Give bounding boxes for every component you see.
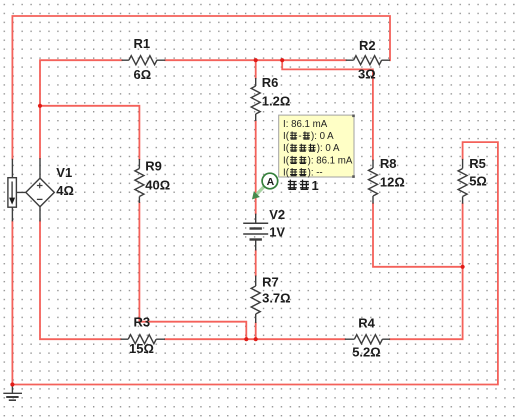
wire: R6 bottom to V2 top: [255, 121, 257, 214]
svg-text:R8: R8: [380, 156, 397, 171]
svg-text:): 0 A: ): 0 A: [317, 143, 340, 154]
svg-text:A: A: [267, 176, 275, 188]
junction node: R7 to rail: [254, 337, 258, 341]
junction node: R9 branch: [38, 104, 42, 108]
svg-text:I(: I(: [283, 143, 290, 154]
svg-text:V1: V1: [56, 165, 72, 180]
svg-text:5Ω: 5Ω: [469, 174, 487, 189]
CCVS V1: current-sense element: [8, 159, 17, 222]
svg-text:4Ω: 4Ω: [56, 183, 74, 198]
resistor R5: [458, 159, 467, 204]
svg-text:6Ω: 6Ω: [134, 67, 152, 82]
CCVS V1: dependent source diamond: [16, 158, 54, 221]
svg-text:5.2Ω: 5.2Ω: [352, 345, 381, 360]
junction node: R6 top: [254, 58, 258, 62]
current probe 探针1: [252, 173, 278, 199]
svg-text:3.7Ω: 3.7Ω: [262, 291, 291, 306]
wire: R1 right to R2 left: [165, 59, 345, 61]
svg-text:R9: R9: [145, 159, 162, 174]
resistor R6: [251, 78, 260, 121]
battery V2: [243, 214, 268, 251]
wire: node down to R4 right: [390, 267, 463, 339]
resistor R1: [122, 56, 166, 65]
svg-text:V2: V2: [269, 207, 285, 222]
svg-text:): 86.1 mA: ): 86.1 mA: [308, 155, 353, 166]
svg-text:R5: R5: [469, 156, 486, 171]
svg-text:3Ω: 3Ω: [358, 67, 376, 82]
svg-text:R7: R7: [262, 275, 279, 290]
wire: R6 top drop: [255, 60, 257, 78]
svg-text:-: -: [298, 131, 301, 142]
svg-text:R4: R4: [358, 316, 375, 331]
svg-text:1: 1: [312, 178, 319, 193]
svg-text:I(: I(: [283, 155, 290, 166]
resistor R9: [135, 159, 144, 203]
svg-text:1.2Ω: 1.2Ω: [262, 94, 291, 109]
wire: node A feed to R9 top: [40, 106, 139, 159]
svg-text:12Ω: 12Ω: [380, 175, 405, 190]
svg-text:40Ω: 40Ω: [145, 178, 170, 193]
wire: left rail top + top rail + drop to R2 right: [12, 16, 390, 159]
svg-text:R1: R1: [134, 36, 151, 51]
svg-text:R3: R3: [134, 315, 151, 330]
wire: V1 output bottom to R3: [40, 221, 121, 339]
wire: V2 bottom to R7 top: [255, 251, 257, 276]
wire: R1 left to V1 column: [40, 60, 122, 158]
junction node: R9 to rail: [244, 337, 248, 341]
resistor R4: [345, 335, 390, 344]
wire: V1 sense bottom to ground node: [11, 221, 13, 384]
resistor R7: [251, 276, 260, 324]
junction node: R5/R8 bottom: [461, 265, 465, 269]
svg-text:): 0 A: ): 0 A: [311, 131, 334, 142]
wire: R7 bottom to rail: [255, 323, 257, 339]
wire: bottom rail + right rail + R5 top link: [12, 142, 498, 384]
wire: R5 bottom to node: [462, 204, 464, 267]
svg-text:I: 86.1 mA: I: 86.1 mA: [283, 119, 328, 130]
junction node: R8 branch: [280, 58, 284, 62]
resistor R8: [369, 160, 378, 204]
wire: R9 bottom to bottom rail: [139, 203, 246, 339]
svg-text:1V: 1V: [269, 225, 285, 240]
svg-text:15Ω: 15Ω: [129, 341, 154, 356]
wire: jog from node to R8 top: [282, 60, 373, 159]
wire: R8 bottom to R5 bottom node: [373, 204, 463, 267]
resistor R2: [346, 56, 390, 65]
probe readout box: [279, 115, 355, 179]
probe name 探针1: [288, 178, 319, 193]
wire: R3 right to R4 left rail: [165, 338, 345, 340]
svg-text:R6: R6: [262, 75, 279, 90]
svg-text:I(: I(: [283, 131, 290, 142]
resistor R3: [121, 335, 166, 344]
svg-text:R2: R2: [359, 38, 376, 53]
svg-text:I(: I(: [283, 168, 290, 179]
junction node: ground: [10, 382, 14, 386]
ground: [3, 385, 22, 401]
